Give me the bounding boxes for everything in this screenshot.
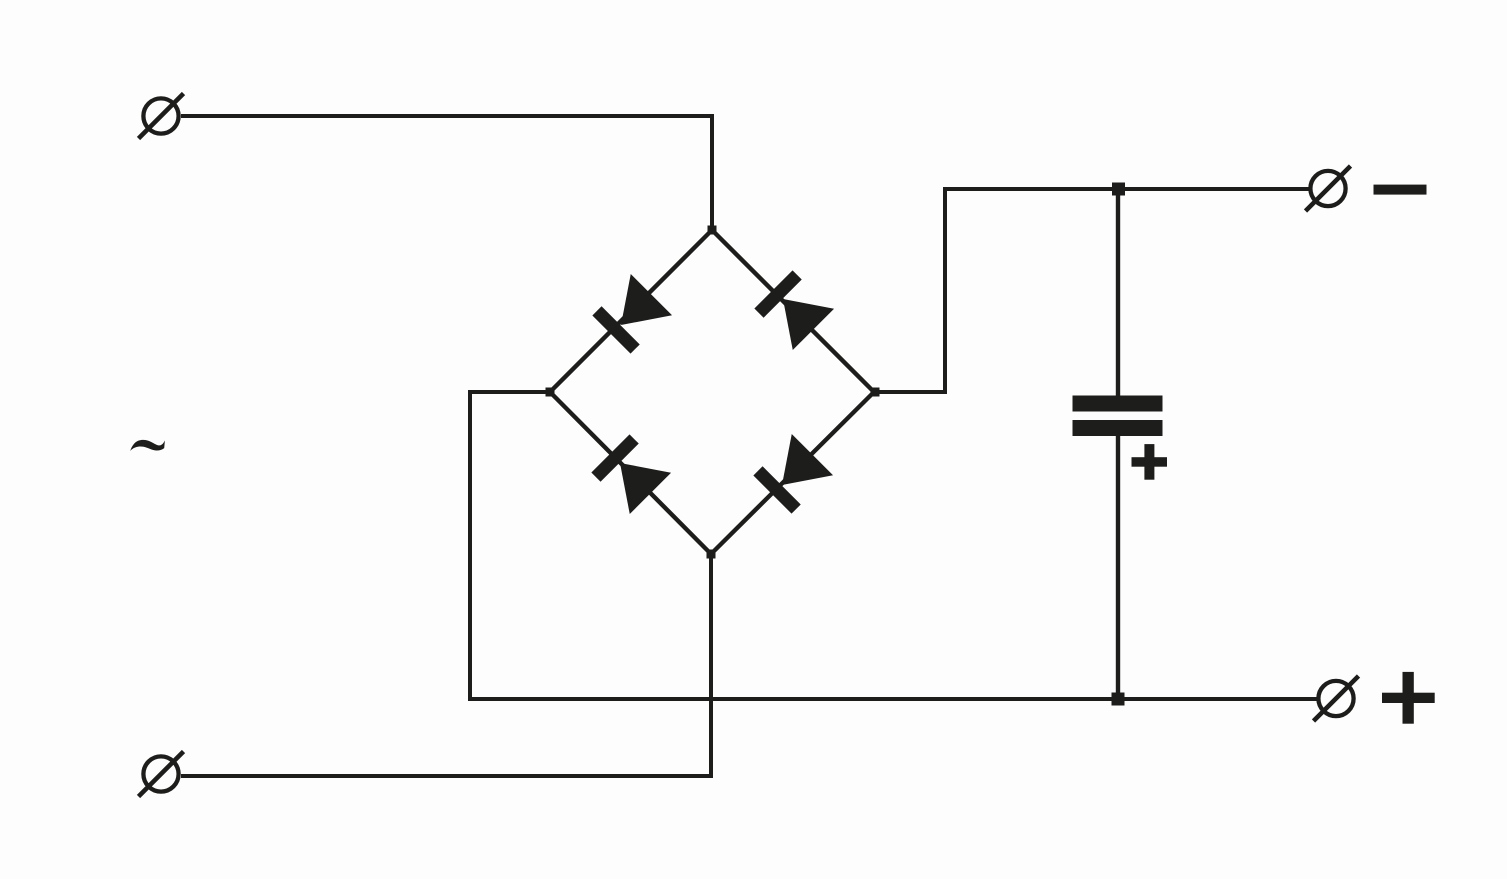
terminal X1 (AC input, top-left): [139, 94, 184, 139]
junction: capacitor top connection on - rail: [1112, 183, 1125, 196]
capacitor C1 top plate: [1073, 396, 1163, 412]
wire: bottom-left terminal to bridge bottom vertex: [181, 554, 711, 776]
wire: capacitor C1 bottom lead: [1116, 436, 1120, 699]
label + (plus): [1382, 672, 1435, 724]
diode D2 (top-right arm, cathode toward top vertex): [753, 269, 834, 350]
terminal X4 (DC output +, bottom-right): [1314, 676, 1359, 721]
wire: capacitor C1 top lead: [1116, 189, 1120, 396]
terminal X2 (AC input, bottom-left): [139, 752, 184, 797]
wire: bridge left vertex (+) down and along bottom rail to + terminal: [470, 392, 1317, 699]
junction: bridge top vertex (AC node): [708, 226, 717, 235]
label - (minus): [1374, 185, 1427, 195]
wire: bridge edge top vertex to left vertex: [550, 230, 712, 392]
wire: bridge edge top vertex to right vertex: [712, 230, 874, 392]
junction: bridge bottom vertex (AC node): [707, 550, 716, 559]
junction: bridge right vertex (- node): [871, 388, 880, 397]
junction: capacitor bottom connection on + rail: [1112, 693, 1125, 706]
diode D1 (top-left arm, cathode toward left vertex): [591, 274, 672, 355]
diode D3 (bottom-left arm, cathode toward left vertex): [590, 433, 671, 514]
wire: bridge right vertex (-) up and along top rail to - terminal: [874, 189, 1309, 392]
wire: bridge edge left vertex to bottom vertex: [550, 392, 711, 554]
wire: bridge edge bottom vertex to right vertex: [711, 392, 874, 554]
terminal X3 (DC output -, top-right): [1306, 166, 1351, 211]
wire: top-left terminal to bridge top vertex: [181, 116, 712, 230]
capacitor C1 bottom plate: [1073, 420, 1163, 436]
capacitor C1 polarity label +: [1132, 444, 1168, 480]
diode D4 (bottom-right arm, cathode toward bottom vertex): [752, 434, 833, 515]
AC label ~: [130, 440, 165, 451]
junction: bridge left vertex (+ node): [546, 388, 555, 397]
